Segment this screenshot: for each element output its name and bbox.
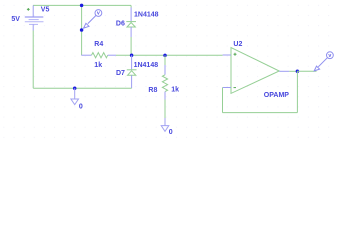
svg-text:V5: V5 xyxy=(41,7,50,14)
ground 0 left xyxy=(71,88,79,104)
svg-text:1k: 1k xyxy=(94,62,102,69)
grid dots xyxy=(0,0,338,143)
svg-text:0: 0 xyxy=(79,103,83,110)
opamp + input mark xyxy=(234,53,237,56)
svg-text:R8: R8 xyxy=(148,87,157,94)
wire output to node xyxy=(289,70,297,72)
voltage probe V marker 1 xyxy=(84,10,102,29)
svg-text:5V: 5V xyxy=(11,16,20,23)
wire R4 to opamp xyxy=(116,54,223,56)
ground 0 under R8 xyxy=(161,118,169,131)
wire output stub right xyxy=(297,70,316,72)
battery V5 xyxy=(25,5,44,30)
node R8 junction xyxy=(163,54,167,58)
plus polarity mark xyxy=(27,8,30,11)
wire feedback up to inverting input xyxy=(222,88,224,113)
diode D7 xyxy=(131,55,133,69)
wire vertical left drop to R4 xyxy=(81,5,83,55)
wire bottom rail xyxy=(33,87,131,89)
wire feedback down xyxy=(296,71,298,112)
node D7 junction xyxy=(130,53,134,57)
resistor R4 xyxy=(81,54,91,56)
opamp - input mark xyxy=(234,87,237,89)
svg-text:V: V xyxy=(97,11,100,16)
opamp + input pin xyxy=(223,54,231,56)
opamp - input pin xyxy=(223,87,231,89)
svg-text:0: 0 xyxy=(169,129,173,136)
svg-text:1N4148: 1N4148 xyxy=(134,12,159,19)
wire D6 to node xyxy=(130,37,132,55)
wire battery bottom xyxy=(32,31,34,89)
wire D7 to bottom rail xyxy=(131,75,133,88)
diode D6 xyxy=(130,5,132,7)
svg-text:D7: D7 xyxy=(116,70,125,77)
svg-text:V: V xyxy=(328,53,331,58)
node ground junction xyxy=(73,86,77,90)
svg-text:U2: U2 xyxy=(233,41,242,48)
resistor R8 xyxy=(164,55,166,65)
opamp output pin xyxy=(279,70,289,72)
node junction top corner xyxy=(80,4,84,8)
voltage probe V marker 2 xyxy=(314,52,333,71)
node probe attach point xyxy=(80,28,84,32)
svg-text:OPAMP: OPAMP xyxy=(264,92,289,99)
wire feedback bottom xyxy=(223,112,298,114)
svg-text:D6: D6 xyxy=(116,20,125,27)
svg-text:1k: 1k xyxy=(171,87,179,94)
node output junction xyxy=(296,70,300,74)
op-amp U2 xyxy=(231,48,279,94)
svg-text:R4: R4 xyxy=(94,41,103,48)
svg-text:1N4148: 1N4148 xyxy=(134,62,159,69)
wire top horizontal from V5 to D6 xyxy=(33,4,131,6)
